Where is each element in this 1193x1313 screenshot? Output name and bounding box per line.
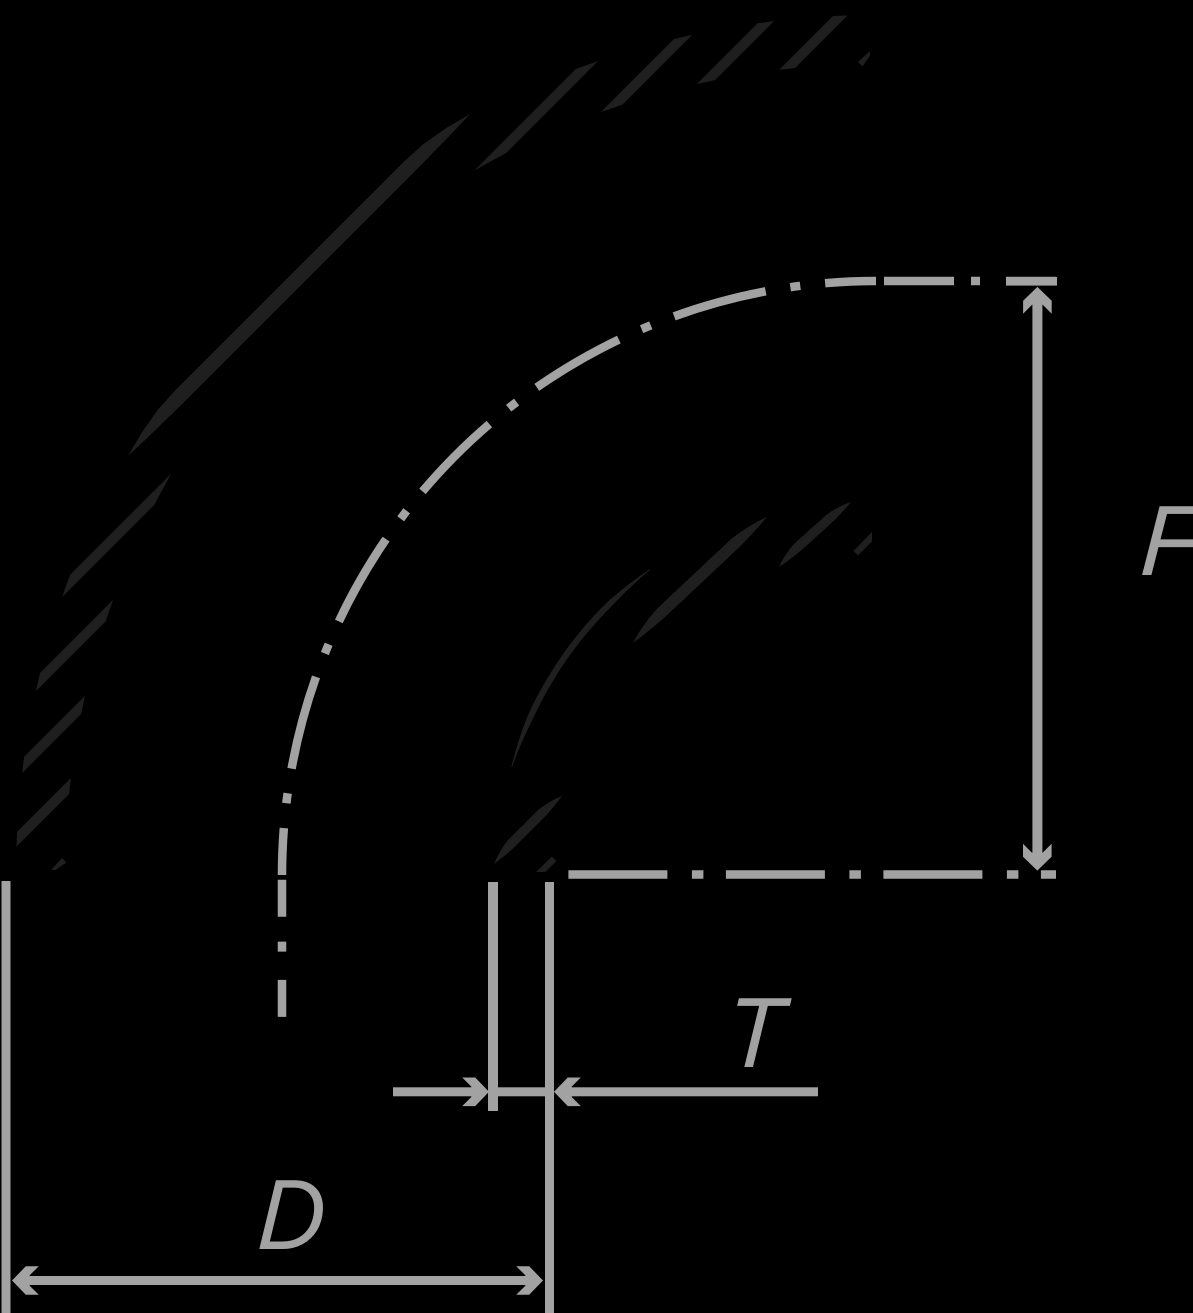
inner hatch sliver lower-left [494,796,562,864]
elbow outer wall hatching (45-degree section lines clipped to wall band) [0,0,880,880]
hatch line c=652 [0,0,880,880]
T arrowhead left [554,1078,581,1107]
inner hatch corner bit right [854,532,873,555]
D arrowhead left [12,1266,39,1295]
D/T outer-wall extension line [545,882,554,1313]
dimension T line left tail [393,1087,485,1096]
vertical centerline extension below face (dash-dot) [278,880,287,1021]
inner hatch corner bit bottom [536,857,556,872]
hatch brush stroke c=584 (long calligraphic) [128,114,470,456]
dimension T line middle segment [498,1087,545,1096]
centerline group [282,281,1056,1021]
T arrowhead right [462,1078,489,1107]
F extension tick at top [1006,277,1057,286]
svg-text:D: D [255,1159,329,1271]
inner hatch bold stroke [633,517,767,643]
hatch line c=856 [0,0,880,880]
bore outline arc stroke [511,569,650,767]
centerline arc of elbow (dash-dot) [282,281,876,875]
hatch line c=788 [0,0,880,880]
D left extension line [2,881,11,1313]
F arrowhead up [1023,287,1052,314]
horizontal centerline extension right of face (dash-dot) [884,277,1056,286]
svg-text:F: F [1138,485,1193,597]
inner hatch sliver upper-right [779,502,851,567]
dimension T line right tail [558,1087,818,1096]
hatch corner bit at bottom face of outer wall [51,858,67,870]
hatch corner bit at right face of outer wall [858,51,870,67]
elbow inner wall hatching (tapered sketch strokes) [494,502,872,872]
D arrowhead right [516,1266,543,1295]
dimension F shaft [1032,295,1042,865]
F arrowhead down [1023,844,1052,871]
hatch line c=720 [0,0,880,880]
dimension lines [2,277,1058,1313]
T inner-bore extension line [488,882,498,1111]
dimension D line [16,1276,539,1285]
bottom face plane dash-dot line [568,870,1056,879]
